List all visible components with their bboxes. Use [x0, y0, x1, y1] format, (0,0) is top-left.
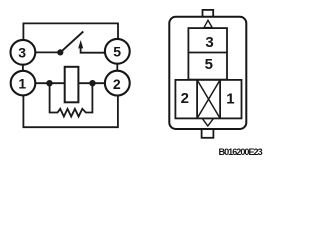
switch blade (relay contact arm) [60, 32, 83, 53]
relay coil K1 [65, 67, 79, 103]
terminal circle 5 [105, 39, 130, 64]
resistor R (parallel with coil) [50, 85, 93, 117]
terminal box bottom row [175, 80, 241, 119]
svg-text:1: 1 [226, 91, 234, 108]
svg-text:2: 2 [181, 90, 189, 107]
connector bottom tab [202, 129, 214, 138]
wire coil rail terminal1 to terminal2 [35, 82, 105, 84]
svg-text:B016200E23: B016200E23 [219, 147, 263, 157]
terminal circle 3 [11, 40, 36, 65]
terminal circle 2 [105, 71, 130, 96]
wire link terminal5 to terminal2 [116, 64, 118, 71]
divider right of X cell [219, 80, 221, 119]
wire link terminal3 to terminal1 [22, 65, 24, 71]
junction dot switch fixed contact [57, 49, 63, 55]
wire terminal3 to switch fixed contact [35, 51, 60, 53]
connector body outline [169, 17, 246, 129]
wire top rail terminal3 to terminal5 [23, 23, 118, 40]
wire switch arrow to terminal5 [81, 48, 105, 53]
divider between cell 3 and cell 5 [188, 52, 227, 54]
X cell diagonal 1 [197, 80, 220, 119]
svg-text:3: 3 [18, 45, 26, 61]
terminal box 3/5 [188, 28, 227, 80]
svg-text:5: 5 [113, 44, 121, 60]
svg-text:5: 5 [205, 56, 213, 73]
divider left of X cell [196, 80, 198, 119]
X cell diagonal 2 [197, 80, 220, 119]
svg-text:2: 2 [113, 76, 121, 92]
switch arrowhead (moving contact target) [78, 40, 83, 48]
svg-text:1: 1 [18, 76, 26, 92]
terminal circle 1 [11, 71, 36, 96]
svg-text:3: 3 [205, 34, 213, 51]
junction node B [89, 80, 95, 86]
junction node A [46, 80, 52, 86]
index triangle up [204, 20, 212, 27]
wire bottom rail terminal1 to terminal2 [23, 95, 118, 127]
connector top tab [203, 10, 214, 17]
index triangle down [202, 118, 213, 126]
